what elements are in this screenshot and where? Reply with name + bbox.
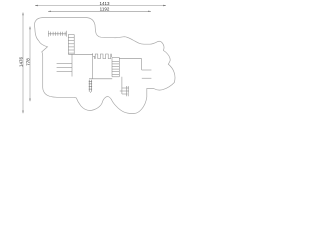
svg-text:778: 778 <box>25 58 30 66</box>
svg-text:1192: 1192 <box>100 7 110 12</box>
svg-text:1413: 1413 <box>99 1 110 6</box>
svg-text:1476: 1476 <box>18 56 23 67</box>
